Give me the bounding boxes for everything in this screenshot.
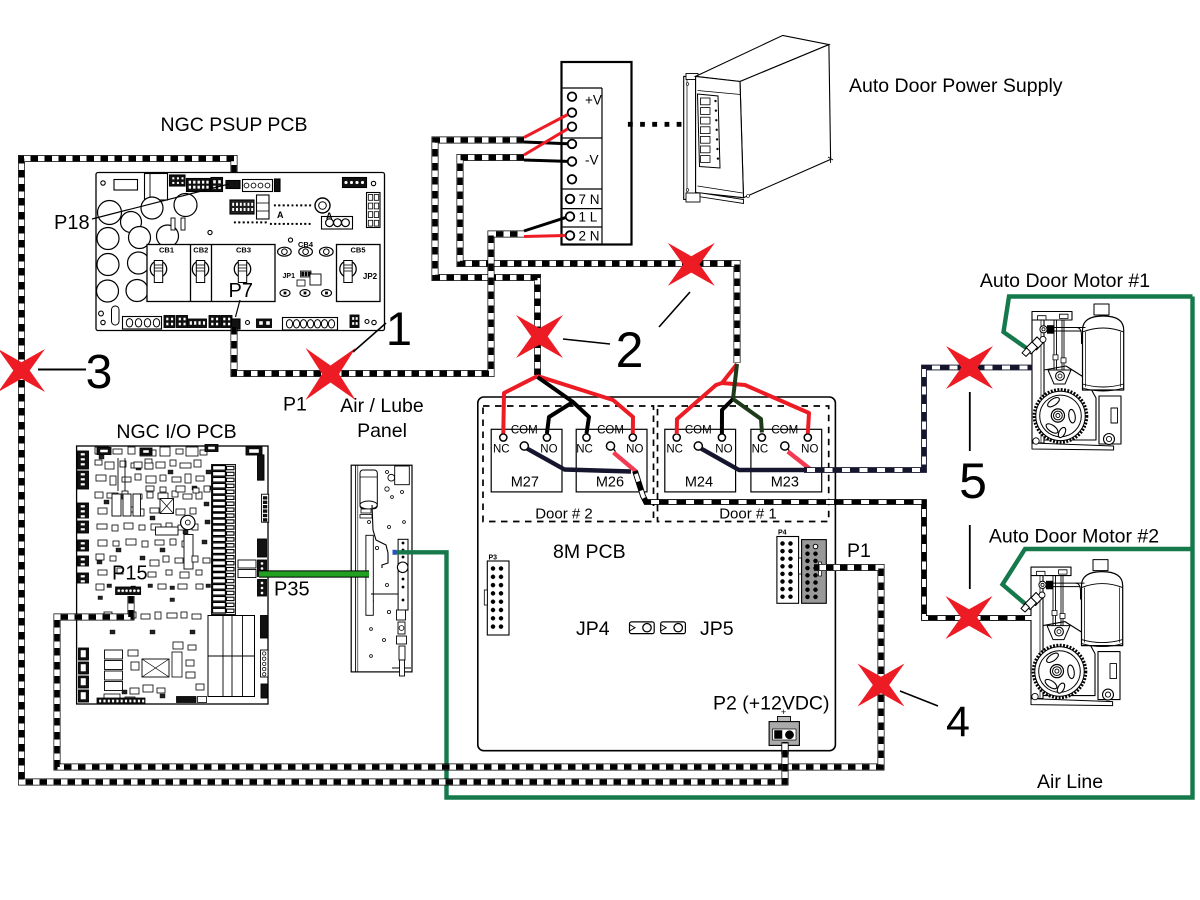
connector P1 (gray) <box>802 540 827 604</box>
air line to motor 1 <box>1004 297 1193 349</box>
svg-text:A: A <box>326 211 333 221</box>
black wire cable1 to M26 NC <box>573 402 589 434</box>
X mark 2a <box>516 315 563 358</box>
svg-text:M24: M24 <box>685 475 713 491</box>
cable P7 to 1L/2N <box>234 234 524 374</box>
svg-text:Auto Door Motor #2: Auto Door Motor #2 <box>989 526 1159 548</box>
cable M23/M24 to motor 1 <box>804 368 1033 471</box>
svg-text:COM: COM <box>511 425 538 437</box>
cable P15 to 8M P1 <box>57 568 881 768</box>
svg-text:P3: P3 <box>489 555 498 562</box>
svg-text:NO: NO <box>801 444 818 456</box>
svg-text:NC: NC <box>666 444 683 456</box>
red wire to +V terminal b <box>524 129 568 155</box>
NGC PSUP PCB board outline <box>96 173 385 331</box>
connector P2 (+12VDC) <box>769 707 799 754</box>
X mark 2b <box>668 243 715 286</box>
svg-text:P35: P35 <box>274 579 310 601</box>
svg-text:CB1: CB1 <box>159 246 174 255</box>
svg-text:CB2: CB2 <box>193 246 208 255</box>
8M PCB board outline <box>478 397 836 751</box>
air line from panel <box>394 297 1193 798</box>
navy wire M27 COM <box>527 449 631 472</box>
svg-text:P15: P15 <box>112 563 148 585</box>
svg-text:4: 4 <box>946 698 970 746</box>
Auto Door Motor #2 drawing <box>1021 560 1123 706</box>
svg-text:P2 (+12VDC): P2 (+12VDC) <box>713 693 830 715</box>
svg-text:Door # 2: Door # 2 <box>535 506 593 523</box>
Auto Door Power Supply drawing <box>684 35 833 203</box>
jumper JP4 <box>630 622 655 634</box>
relay M27 <box>491 425 562 492</box>
cable P18 to 8M P2 <box>22 159 786 783</box>
svg-text:1 L: 1 L <box>579 210 598 225</box>
svg-text:JP5: JP5 <box>700 618 734 640</box>
cable +V/-V to Door2 relays <box>435 140 538 375</box>
svg-text:NC: NC <box>493 444 510 456</box>
X mark 1 <box>306 348 356 400</box>
svg-text:CB5: CB5 <box>350 246 365 255</box>
power terminal block <box>562 62 632 245</box>
P7 pointer line <box>236 300 241 317</box>
navy wire M24 COM <box>701 449 806 470</box>
svg-text:P4: P4 <box>778 530 787 537</box>
svg-text:3: 3 <box>86 346 113 399</box>
svg-text:NGC I/O PCB: NGC I/O PCB <box>116 421 236 443</box>
P18 pointer line <box>92 184 229 219</box>
cable M26/M27 to motor 2 <box>635 471 1032 618</box>
svg-text:5: 5 <box>959 453 987 509</box>
green wire cable2 to M23 NC <box>733 399 762 433</box>
P15 connector <box>116 587 141 595</box>
svg-text:M26: M26 <box>596 475 624 491</box>
pointer line to 1 <box>353 323 386 352</box>
svg-text:2 N: 2 N <box>579 229 600 244</box>
svg-text:COM: COM <box>597 425 624 437</box>
red wire cable2 to M24 NC <box>677 364 737 434</box>
Door # 2 dashed box <box>483 406 654 522</box>
svg-text:Door # 1: Door # 1 <box>719 506 777 523</box>
svg-text:P1: P1 <box>283 394 307 416</box>
svg-text:NO: NO <box>540 444 557 456</box>
svg-text:NC: NC <box>752 444 769 456</box>
connector P4 (white) <box>777 530 802 604</box>
pointer line to 3 <box>38 369 86 371</box>
pointer line to 4 <box>900 691 938 706</box>
X mark 3 <box>0 349 45 392</box>
X mark 5a <box>946 346 993 389</box>
jumper JP5 <box>661 622 686 634</box>
black wire cable1 to M27 NO <box>538 377 574 434</box>
svg-text:COM: COM <box>771 425 798 437</box>
black wire to 1L terminal <box>524 218 566 231</box>
black wire to -V terminal b <box>524 160 568 161</box>
svg-text:7 N: 7 N <box>579 192 600 207</box>
X mark 4 <box>858 664 905 707</box>
svg-text:A: A <box>277 210 284 220</box>
svg-text:JP4: JP4 <box>576 618 610 640</box>
svg-text:NO: NO <box>715 444 732 456</box>
svg-text:2: 2 <box>616 322 644 378</box>
svg-text:Auto Door Power Supply: Auto Door Power Supply <box>849 75 1063 97</box>
red wire cable1 to M26 NO <box>538 376 634 434</box>
pink wire M26 COM <box>614 453 637 472</box>
cable -V pair to Door1 relays <box>460 158 737 364</box>
svg-text:+V: +V <box>585 93 602 108</box>
red wire to +V terminal <box>524 115 568 138</box>
dotted link to power supply <box>628 122 633 127</box>
Air / Lube Panel drawing <box>351 465 412 676</box>
svg-text:1: 1 <box>386 302 412 355</box>
Auto Door Motor #1 drawing <box>1022 304 1124 450</box>
red wire cable1 to M27 NC <box>503 376 537 434</box>
green wire cable2 stem <box>733 364 737 399</box>
svg-text:NGC PSUP PCB: NGC PSUP PCB <box>160 114 307 136</box>
svg-text:-V: -V <box>585 153 599 168</box>
svg-text:COM: COM <box>685 425 712 437</box>
relay M24 <box>665 425 736 492</box>
svg-text:JP2: JP2 <box>363 272 378 281</box>
black wire to -V terminal a <box>524 142 568 144</box>
pointer line 2 to X2b <box>659 292 690 327</box>
pointer line 5 upper <box>969 392 971 451</box>
NGC I/O PCB board outline <box>77 445 269 705</box>
svg-text:M27: M27 <box>511 475 539 491</box>
svg-text:NO: NO <box>626 444 643 456</box>
svg-text:NC: NC <box>576 444 593 456</box>
svg-text:8M PCB: 8M PCB <box>553 541 626 563</box>
relay M26 <box>576 425 647 492</box>
svg-text:Panel: Panel <box>357 420 407 442</box>
air line blue fitting <box>393 550 397 555</box>
air line to motor 2 <box>1003 549 1193 605</box>
red wire cable2 to M23 NO <box>722 383 809 434</box>
svg-text:Air / Lube: Air / Lube <box>340 395 423 417</box>
pink wire M23 COM <box>788 452 810 470</box>
X mark 5b <box>946 596 993 639</box>
P35 green wire <box>259 570 369 577</box>
svg-text:Air Line: Air Line <box>1037 771 1103 793</box>
svg-text:M23: M23 <box>771 475 799 491</box>
connector P3 <box>484 555 509 636</box>
black wire cable2 to M24 NO <box>722 399 733 434</box>
pointer line 2 to X2a <box>563 339 610 344</box>
blue fitting dot motor 2 <box>1027 603 1031 607</box>
relay M23 <box>751 425 822 492</box>
Door # 1 dashed box <box>658 406 829 522</box>
svg-text:JP1: JP1 <box>283 273 296 280</box>
red wire to 2N terminal <box>524 236 566 237</box>
svg-text:CB3: CB3 <box>236 246 251 255</box>
svg-text:P1: P1 <box>847 540 871 562</box>
pointer line 5 lower <box>969 525 971 589</box>
svg-text:P7: P7 <box>229 280 253 302</box>
svg-text:Auto Door Motor #1: Auto Door Motor #1 <box>980 270 1150 292</box>
svg-text:P18: P18 <box>54 212 90 234</box>
